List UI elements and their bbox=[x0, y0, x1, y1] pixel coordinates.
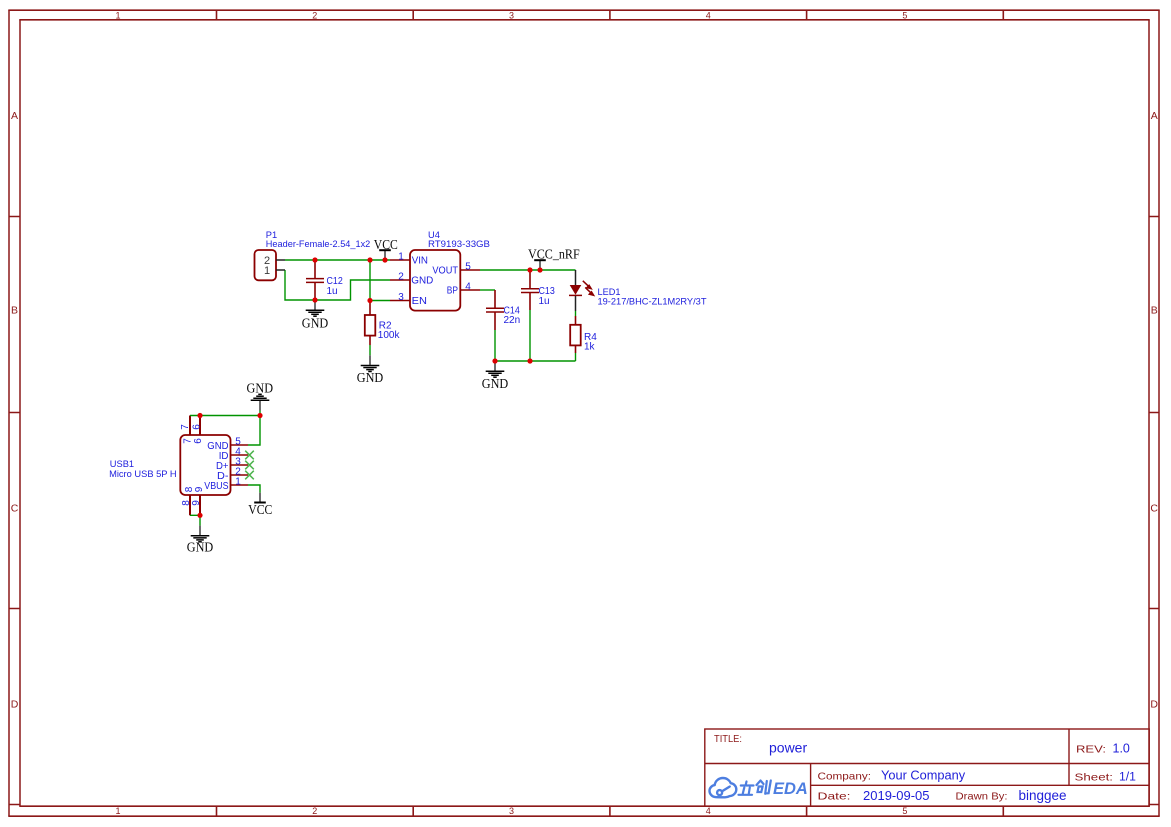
svg-text:1: 1 bbox=[115, 806, 120, 816]
svg-text:D: D bbox=[1150, 698, 1158, 710]
logo cloud icon bbox=[710, 778, 737, 797]
svg-text:6: 6 bbox=[193, 438, 204, 444]
svg-text:A: A bbox=[11, 110, 18, 122]
P1 pin 1 stub bbox=[276, 269, 285, 271]
wire VIN rail P1.2 to U4 bbox=[285, 259, 390, 261]
power flag VCC below USB (flipped) bbox=[254, 493, 266, 503]
svg-text:VCC: VCC bbox=[248, 502, 272, 517]
svg-text:D: D bbox=[11, 698, 19, 710]
svg-text:3: 3 bbox=[509, 806, 514, 816]
node C14 gnd bbox=[492, 358, 497, 363]
USB1 pin 2 D- bbox=[231, 474, 249, 476]
wire USB bottom rail bbox=[190, 515, 200, 525]
svg-text:1u: 1u bbox=[539, 296, 550, 307]
USB1 pin 6 stub top bbox=[199, 416, 201, 436]
svg-text:Sheet:: Sheet: bbox=[1075, 772, 1114, 784]
U4 pin 1 VIN bbox=[390, 259, 410, 261]
wire R4 to GND rail bbox=[575, 353, 577, 361]
wire top gnd stub bbox=[259, 411, 261, 416]
svg-text:1: 1 bbox=[264, 265, 270, 277]
USB1 pin 5 GND bbox=[231, 444, 249, 446]
U4 pin 4 BP bbox=[460, 289, 480, 291]
svg-text:GND: GND bbox=[357, 370, 384, 385]
wire P1.1 to U4 GND pin bbox=[285, 270, 390, 300]
svg-text:Micro USB 5P H: Micro USB 5P H bbox=[109, 469, 177, 479]
svg-text:EN: EN bbox=[412, 295, 427, 307]
svg-text:A: A bbox=[1151, 110, 1158, 122]
svg-text:1: 1 bbox=[115, 10, 120, 20]
node C12 bottom bbox=[312, 297, 317, 302]
svg-text:EDA: EDA bbox=[773, 780, 808, 798]
USB1 pin 8 stub bottom bbox=[189, 495, 191, 515]
wire EN node to U4 EN pin bbox=[370, 300, 390, 302]
wire GND pin5 riser bbox=[248, 416, 260, 446]
svg-text:VOUT: VOUT bbox=[432, 265, 458, 277]
column ticks bottom bbox=[217, 806, 1004, 816]
IC U4 RT9193-33GB bbox=[410, 250, 460, 311]
USB1 pin 9 stub bottom bbox=[199, 495, 201, 515]
svg-text:VIN: VIN bbox=[412, 254, 428, 266]
svg-text:3: 3 bbox=[398, 292, 404, 303]
svg-text:BP: BP bbox=[447, 284, 458, 296]
ground below R2 bbox=[361, 355, 380, 371]
ground below C14 bbox=[486, 361, 505, 377]
column ticks top bbox=[217, 10, 1004, 20]
resistor R4 bbox=[570, 316, 581, 353]
U4 pin 5 VOUT bbox=[460, 269, 480, 271]
ground flag above USB (flipped) bbox=[251, 394, 270, 410]
node VCC_nRF bbox=[537, 267, 542, 272]
svg-text:5: 5 bbox=[465, 261, 471, 272]
node EN / R2 bbox=[367, 298, 372, 303]
svg-text:7: 7 bbox=[183, 438, 194, 444]
U4 pin 3 EN bbox=[390, 300, 410, 302]
wire C13 bottom bbox=[529, 310, 531, 361]
no-connect X pin 3 bbox=[245, 461, 254, 470]
wire LED to R4 bbox=[575, 311, 577, 316]
svg-text:USB1: USB1 bbox=[110, 459, 134, 469]
LED1 bbox=[569, 270, 594, 311]
svg-text:22n: 22n bbox=[504, 315, 521, 326]
svg-text:4: 4 bbox=[706, 10, 711, 20]
USB1 pin 3 D+ bbox=[231, 464, 249, 466]
wire VCC branch down to EN node bbox=[369, 260, 371, 301]
svg-text:6: 6 bbox=[192, 424, 203, 430]
svg-text:C: C bbox=[1150, 502, 1158, 514]
svg-text:GND: GND bbox=[247, 381, 274, 396]
svg-text:Company:: Company: bbox=[818, 770, 872, 782]
resistor R2 bbox=[365, 301, 376, 346]
svg-text:Your Company: Your Company bbox=[881, 768, 966, 783]
node USB pin9 bottom bbox=[197, 513, 202, 518]
title block row divider 1 bbox=[705, 763, 1150, 765]
svg-text:1/1: 1/1 bbox=[1119, 770, 1136, 784]
svg-text:2: 2 bbox=[312, 806, 317, 816]
svg-text:B: B bbox=[11, 304, 18, 316]
wire bottom GND rail bbox=[495, 360, 576, 362]
USB1 pin 4 ID bbox=[231, 454, 249, 456]
wire R2 bottom to GND bbox=[369, 345, 371, 355]
logo text 立创 (drawn strokes) bbox=[739, 781, 771, 795]
USB1 pin 7 stub top bbox=[189, 416, 191, 436]
power flag VCC at VIN rail bbox=[379, 250, 391, 260]
svg-text:19-217/BHC-ZL1M2RY/3T: 19-217/BHC-ZL1M2RY/3T bbox=[598, 296, 707, 306]
svg-text:1k: 1k bbox=[584, 341, 596, 352]
svg-text:4: 4 bbox=[706, 806, 711, 816]
USB connector USB1 bbox=[180, 435, 230, 495]
svg-text:TITLE:: TITLE: bbox=[714, 734, 742, 745]
svg-text:2: 2 bbox=[398, 271, 404, 282]
svg-text:power: power bbox=[769, 740, 807, 756]
capacitor C12 bbox=[306, 260, 324, 300]
no-connect X pin 2 bbox=[245, 471, 254, 480]
title block outline bbox=[705, 729, 1149, 806]
svg-text:VCC_nRF: VCC_nRF bbox=[528, 246, 580, 261]
connector P1 bbox=[255, 250, 277, 280]
wire VBUS to VCC bbox=[248, 485, 260, 493]
svg-text:VCC: VCC bbox=[374, 237, 398, 252]
svg-text:1: 1 bbox=[398, 251, 404, 262]
svg-text:Drawn By:: Drawn By: bbox=[956, 791, 1008, 803]
node USB pin6 top bbox=[197, 413, 202, 418]
svg-text:Date:: Date: bbox=[818, 791, 851, 803]
power flag VCC_nRF bbox=[534, 260, 546, 270]
svg-text:4: 4 bbox=[465, 281, 471, 292]
svg-text:GND: GND bbox=[482, 376, 509, 391]
svg-text:binggee: binggee bbox=[1019, 788, 1067, 803]
row ticks left bbox=[9, 217, 20, 805]
node C12 top bbox=[312, 257, 317, 262]
USB1 pin 1 VBUS bbox=[231, 484, 249, 486]
ground below USB bbox=[191, 526, 210, 542]
U4 pin 2 GND bbox=[390, 279, 410, 281]
svg-text:3: 3 bbox=[509, 10, 514, 20]
svg-text:1u: 1u bbox=[327, 286, 338, 297]
title block logo cell divider bbox=[810, 764, 812, 806]
node C13 gnd bbox=[527, 358, 532, 363]
node USB top gnd bbox=[257, 413, 262, 418]
svg-text:5: 5 bbox=[902, 806, 907, 816]
capacitor C14 bbox=[486, 290, 504, 361]
svg-text:RT9193-33GB: RT9193-33GB bbox=[428, 239, 490, 250]
svg-text:9: 9 bbox=[191, 500, 202, 506]
svg-text:1.0: 1.0 bbox=[1113, 742, 1130, 756]
svg-text:1: 1 bbox=[235, 476, 241, 487]
P1 pin 2 stub bbox=[276, 259, 285, 261]
capacitor C13 bbox=[521, 270, 539, 310]
svg-text:VBUS: VBUS bbox=[204, 480, 228, 492]
svg-text:2019-09-05: 2019-09-05 bbox=[863, 788, 930, 803]
ground below C12 bbox=[306, 300, 325, 316]
svg-text:100k: 100k bbox=[378, 330, 401, 341]
title block row divider 2 bbox=[811, 784, 1150, 786]
svg-text:GND: GND bbox=[302, 316, 329, 331]
svg-text:GND: GND bbox=[411, 275, 433, 287]
wire BP to C14 bbox=[480, 289, 495, 291]
svg-text:Header-Female-2.54_1x2: Header-Female-2.54_1x2 bbox=[266, 239, 371, 250]
wire VOUT rail bbox=[480, 269, 576, 271]
svg-text:REV:: REV: bbox=[1076, 743, 1106, 755]
no-connect X pin 4 bbox=[245, 451, 254, 460]
title block column divider right bbox=[1068, 729, 1070, 785]
svg-text:B: B bbox=[1151, 304, 1158, 316]
svg-text:2: 2 bbox=[312, 10, 317, 20]
node C13 top bbox=[527, 267, 532, 272]
svg-text:C: C bbox=[11, 502, 19, 514]
svg-text:5: 5 bbox=[902, 10, 907, 20]
row ticks right bbox=[1149, 217, 1159, 805]
svg-text:7: 7 bbox=[180, 424, 191, 430]
node VCC at VIN rail bbox=[382, 257, 387, 262]
node branch at VIN rail bbox=[367, 257, 372, 262]
svg-text:GND: GND bbox=[187, 539, 214, 554]
wire USB top rail bbox=[190, 415, 260, 417]
